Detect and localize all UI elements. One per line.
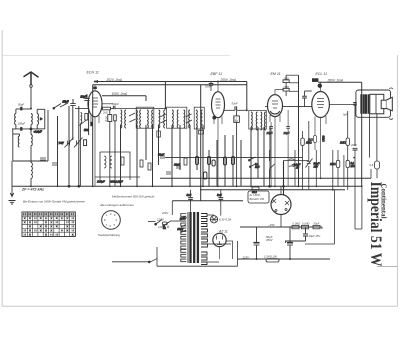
svg-text:20µF 15V: 20µF 15V bbox=[308, 234, 321, 238]
svg-text:MΩ: MΩ bbox=[351, 164, 355, 168]
svg-text:125µF: 125µF bbox=[97, 180, 105, 184]
svg-text:20µF: 20µF bbox=[266, 131, 273, 135]
svg-text:2kΩ: 2kΩ bbox=[102, 111, 108, 115]
svg-text:225V: 225V bbox=[242, 255, 251, 259]
svg-text:110V: 110V bbox=[177, 227, 183, 231]
svg-text:6,3V 0,3A: 6,3V 0,3A bbox=[219, 218, 231, 222]
svg-text:Meßinstrument 500 Ω/V geeicht: Meßinstrument 500 Ω/V geeicht bbox=[112, 195, 154, 199]
svg-text:5µF: 5µF bbox=[343, 113, 348, 117]
svg-text:0,1MΩ: 0,1MΩ bbox=[302, 223, 310, 226]
svg-text:2MΩ: 2MΩ bbox=[282, 85, 289, 89]
svg-text:100V, 2mA: 100V, 2mA bbox=[112, 92, 128, 96]
svg-text:1MΩ: 1MΩ bbox=[283, 76, 289, 80]
svg-text:1MΩ: 1MΩ bbox=[330, 162, 336, 166]
svg-text:20pF: 20pF bbox=[80, 95, 87, 99]
svg-text:Sockelschaltung: Sockelschaltung bbox=[98, 233, 120, 237]
svg-text:5nF: 5nF bbox=[187, 193, 192, 197]
svg-text:+0,1µF: +0,1µF bbox=[34, 130, 43, 134]
svg-text:ZF = 472 kHz: ZF = 472 kHz bbox=[21, 188, 44, 192]
svg-text:110V: 110V bbox=[158, 225, 166, 229]
svg-text:260V, 2mA: 260V, 2mA bbox=[327, 78, 344, 82]
svg-text:220V: 220V bbox=[161, 211, 168, 215]
svg-text:350V: 350V bbox=[266, 238, 274, 242]
svg-text:220V: 220V bbox=[179, 217, 186, 221]
svg-text:1MΩ: 1MΩ bbox=[306, 141, 312, 145]
svg-text:ECH 11: ECH 11 bbox=[87, 71, 99, 75]
svg-text:53nF: 53nF bbox=[232, 102, 238, 106]
svg-text:50pF: 50pF bbox=[18, 102, 24, 106]
svg-text:2kV: 2kV bbox=[313, 165, 319, 169]
svg-text:1MΩ: 1MΩ bbox=[340, 141, 346, 145]
svg-text:220V: 220V bbox=[156, 218, 165, 222]
svg-text:202V, 2mA: 202V, 2mA bbox=[106, 78, 123, 82]
svg-text:~150: ~150 bbox=[268, 223, 275, 227]
svg-text:Bei Einbau von UKW-Geräte VM g: Bei Einbau von UKW-Geräte VM gezeichnete… bbox=[23, 200, 85, 204]
svg-text:kΩ: kΩ bbox=[105, 119, 108, 123]
svg-text:1,5AΩ,1W: 1,5AΩ,1W bbox=[264, 255, 277, 259]
svg-text:20µF: 20µF bbox=[112, 102, 120, 106]
svg-text:ECL 11: ECL 11 bbox=[316, 72, 328, 76]
svg-text:200V, 2mA: 200V, 2mA bbox=[220, 78, 237, 82]
svg-text:500: 500 bbox=[84, 128, 89, 132]
svg-text:25pF: 25pF bbox=[62, 100, 69, 104]
svg-text:alle Leitungen auftrennen: alle Leitungen auftrennen bbox=[100, 203, 134, 207]
svg-text:Continental: Continental bbox=[379, 184, 387, 219]
svg-text:5nF: 5nF bbox=[255, 165, 260, 169]
svg-text:Bereich VM: Bereich VM bbox=[250, 197, 265, 201]
svg-text:20µF: 20µF bbox=[283, 131, 290, 135]
svg-text:EBF 11: EBF 11 bbox=[211, 72, 223, 76]
svg-text:MΩ: MΩ bbox=[234, 119, 238, 123]
svg-text:0-6: 0-6 bbox=[370, 163, 374, 167]
svg-text:52µF: 52µF bbox=[158, 153, 165, 157]
svg-text:20µF: 20µF bbox=[173, 163, 181, 167]
svg-text:0,1MΩ: 0,1MΩ bbox=[293, 223, 301, 226]
svg-text:20nF: 20nF bbox=[350, 143, 357, 147]
svg-text:EM 11: EM 11 bbox=[271, 72, 281, 76]
svg-text:AZ 11: AZ 11 bbox=[218, 230, 228, 234]
svg-text:5nF: 5nF bbox=[217, 193, 222, 197]
svg-text:100pF: 100pF bbox=[18, 122, 26, 126]
svg-text:7-57: 7-57 bbox=[59, 141, 65, 145]
svg-text:25: 25 bbox=[295, 166, 299, 170]
svg-text:50µF: 50µF bbox=[314, 223, 320, 226]
svg-text:50nF: 50nF bbox=[205, 85, 211, 89]
svg-text:62kΩ: 62kΩ bbox=[322, 136, 326, 142]
svg-text:200x2,5µF: 200x2,5µF bbox=[109, 180, 123, 184]
